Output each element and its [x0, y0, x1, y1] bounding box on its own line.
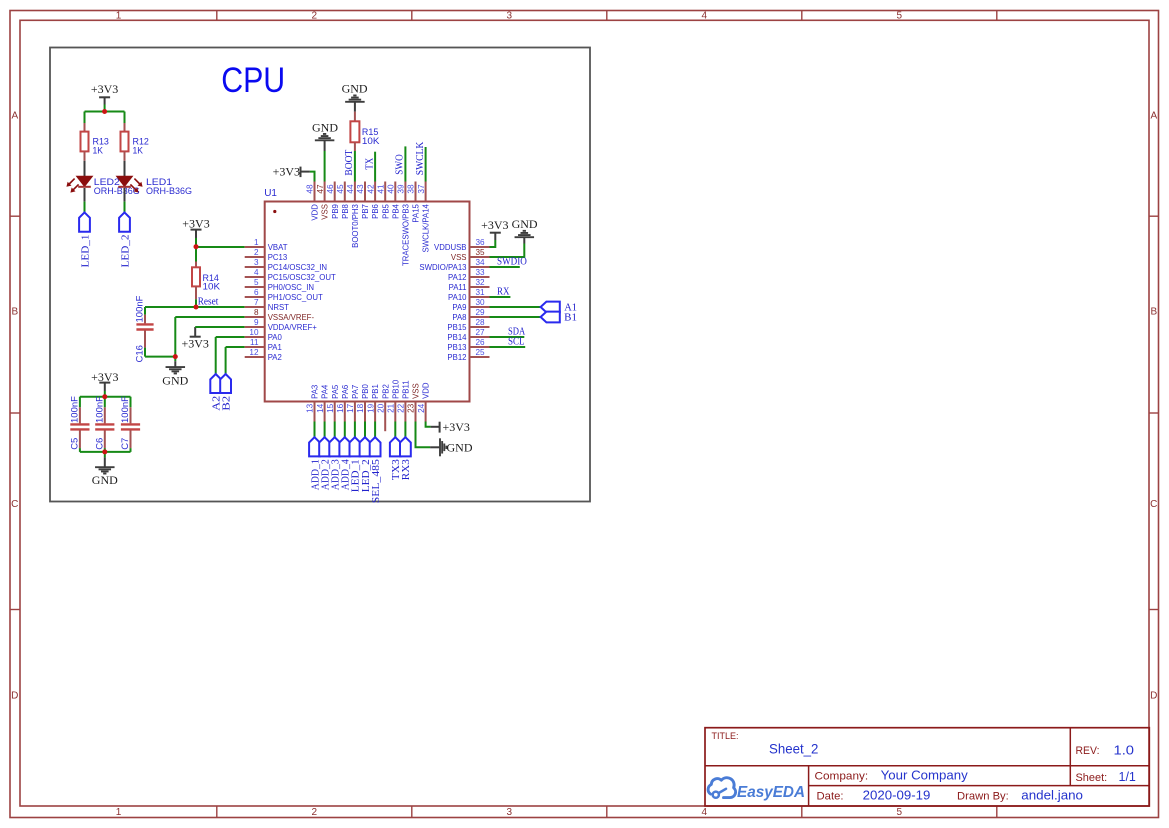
svg-text:46: 46 [326, 184, 335, 194]
svg-text:PB8: PB8 [341, 204, 350, 219]
wire pin 24 VDD to +3V3 [426, 422, 431, 427]
pin 16 PA6 [336, 385, 350, 422]
wire +3V3 to cap rail [104, 391, 106, 397]
capacitor C5 [70, 397, 89, 452]
wire +3V3 to pin 36 [490, 240, 496, 247]
svg-text:PA12: PA12 [448, 273, 467, 282]
label C7 value 100nF [120, 396, 131, 450]
wire net TX pin 42 [374, 152, 376, 182]
pin 14 PA4 [316, 384, 330, 421]
svg-text:17: 17 [346, 403, 355, 413]
label Drawn By [957, 788, 1083, 803]
wire R15 to pin 44 (BOOT) [354, 151, 356, 182]
pin 37 SWCLK/PA14 [417, 182, 431, 253]
svg-text:37: 37 [417, 184, 426, 194]
ground GND (VSS pin 47) [312, 121, 338, 151]
pin 22 PB11 [397, 380, 411, 421]
svg-text:PB9: PB9 [331, 204, 340, 219]
pin 45 PB8 [336, 182, 350, 219]
svg-text:PB1: PB1 [371, 384, 380, 399]
wire R12 to LED1 [124, 161, 126, 177]
ground GND (cap bank) [92, 452, 118, 487]
wire +3V3 to pin 9 VDDA [195, 326, 245, 328]
wire node to pin 1 VBAT [196, 246, 245, 248]
label Company [815, 768, 969, 783]
svg-text:C6: C6 [94, 438, 105, 450]
svg-text:Date:: Date: [817, 791, 844, 803]
svg-text:C: C [1150, 499, 1157, 510]
net flag ADD_4 [339, 437, 350, 456]
pin 8 VSSA/VREF- [245, 308, 315, 322]
svg-text:VDD: VDD [311, 204, 320, 221]
svg-text:Sheet_2: Sheet_2 [769, 741, 819, 757]
svg-text:PA5: PA5 [331, 384, 340, 399]
pin 9 VDDA/VREF+ [245, 318, 318, 332]
pin 21 PB10 [387, 379, 401, 421]
svg-text:B2: B2 [221, 396, 232, 411]
pin 27 PB14 [447, 328, 489, 342]
svg-text:VDD: VDD [422, 382, 431, 399]
junction cap rail bottom [102, 449, 107, 454]
title block [705, 728, 1149, 806]
net flag A2 [210, 374, 221, 393]
svg-text:RX: RX [497, 286, 510, 297]
svg-text:PB6: PB6 [371, 204, 380, 219]
svg-text:44: 44 [346, 184, 355, 194]
capacitor C16 [136, 307, 153, 357]
wire pin to flag ADD_3 [334, 422, 336, 438]
svg-text:41: 41 [376, 184, 385, 194]
pin 34 SWDIO/PA13 [419, 258, 489, 272]
svg-text:20: 20 [376, 403, 385, 413]
net flag LED_2 [360, 437, 371, 456]
ground GND (pin 23) [430, 438, 473, 456]
wire GND to pin 35 [490, 244, 525, 258]
svg-text:16: 16 [336, 403, 345, 413]
svg-text:SEL_485: SEL_485 [371, 459, 382, 503]
svg-text:3: 3 [254, 258, 259, 267]
logo EasyEDA [708, 778, 805, 801]
svg-text:PC13: PC13 [268, 253, 288, 262]
LED LED2 [67, 177, 92, 192]
pin 46 PB9 [326, 182, 340, 219]
svg-text:PA0: PA0 [268, 333, 283, 342]
svg-text:EasyEDA: EasyEDA [737, 784, 805, 801]
svg-text:34: 34 [476, 258, 486, 267]
svg-text:23: 23 [407, 403, 416, 413]
svg-text:VDDUSB: VDDUSB [434, 243, 467, 252]
net flag TX3 [390, 437, 401, 456]
wire pin to flag ADD_1 [314, 422, 316, 438]
svg-text:+3V3: +3V3 [273, 165, 300, 179]
pin 23 VSS [407, 383, 421, 421]
svg-text:+3V3: +3V3 [443, 420, 470, 434]
svg-text:+3V3: +3V3 [91, 82, 118, 96]
resistor R13 [81, 123, 89, 161]
svg-text:4: 4 [702, 807, 708, 818]
wire rail to R12 [124, 112, 126, 124]
resistor R15 [350, 112, 359, 151]
junction LED rail [102, 109, 107, 114]
svg-text:29: 29 [476, 308, 486, 317]
svg-text:26: 26 [476, 338, 486, 347]
net flag SEL_485 [370, 437, 381, 456]
label REV [1076, 743, 1135, 758]
pin 7 NRST [245, 298, 289, 312]
svg-text:VSSA/VREF-: VSSA/VREF- [268, 313, 315, 322]
svg-text:PA1: PA1 [268, 343, 282, 352]
svg-text:CPU: CPU [221, 61, 285, 100]
wire net RX pin 31 [490, 296, 511, 298]
svg-text:10K: 10K [203, 282, 221, 293]
pin 2 PC13 [245, 248, 288, 262]
power +3V3 (VDDUSB pin 36) [481, 218, 508, 240]
svg-text:D: D [11, 691, 18, 702]
svg-text:13: 13 [306, 403, 315, 413]
svg-text:GND: GND [312, 121, 338, 135]
pin 5 PH0/OSC_IN [245, 278, 314, 292]
svg-text:Sheet:: Sheet: [1076, 772, 1108, 784]
wire cap rail top [80, 396, 131, 398]
svg-text:22: 22 [397, 403, 406, 413]
svg-text:PC14/OSC32_IN: PC14/OSC32_IN [268, 263, 327, 272]
svg-text:TITLE:: TITLE: [712, 731, 739, 742]
pin 15 PA5 [326, 384, 340, 421]
svg-text:10: 10 [249, 328, 259, 337]
wire pin 11 PA1 to flag B2 [226, 347, 245, 374]
label Date [817, 788, 931, 803]
wire net SWCLK pin 37 [425, 147, 427, 182]
svg-text:35: 35 [476, 248, 486, 257]
pin 39 TRACESWO/PB3 [397, 182, 411, 267]
power +3V3 (pin 24) [431, 420, 470, 434]
svg-text:1.0: 1.0 [1114, 743, 1135, 758]
pin 18 PB0 [356, 383, 370, 421]
wire LED rail [85, 111, 125, 113]
svg-text:GND: GND [92, 473, 118, 487]
pin 40 PB4 [387, 182, 401, 219]
pin 20 PB2 [376, 384, 390, 431]
svg-text:PB12: PB12 [447, 353, 466, 362]
pin 36 VDDUSB [434, 238, 490, 252]
svg-text:1: 1 [254, 238, 259, 247]
pin 48 VDD [306, 182, 320, 221]
pin 35 VSS [451, 248, 490, 262]
svg-text:39: 39 [397, 184, 406, 194]
svg-text:15: 15 [326, 403, 335, 413]
svg-text:40: 40 [387, 184, 396, 194]
svg-text:19: 19 [366, 403, 375, 413]
junction VBAT node [194, 244, 199, 249]
pin 47 VSS [316, 182, 330, 220]
svg-text:PA2: PA2 [268, 353, 282, 362]
resistor R12 [121, 123, 129, 161]
svg-text:2020-09-19: 2020-09-19 [863, 788, 931, 803]
svg-text:43: 43 [356, 184, 365, 194]
svg-text:C7: C7 [120, 438, 131, 450]
svg-text:42: 42 [366, 184, 375, 194]
net flag LED_1 [350, 437, 361, 456]
ground GND (C16) [162, 357, 188, 388]
resistor R14 [192, 262, 200, 300]
wire pin 30 to flag A1 [490, 306, 541, 308]
svg-text:C5: C5 [70, 438, 81, 450]
junction ground node (C16) [173, 354, 178, 359]
wire pin 29 to flag B1 [490, 316, 541, 318]
wire C16 to ground node [145, 356, 175, 358]
svg-text:PB2: PB2 [381, 384, 390, 399]
power +3V3 (cap bank) [91, 370, 118, 391]
net flag LED_1 [79, 212, 90, 231]
svg-text:TX: TX [364, 157, 375, 169]
wire pin to flag LED_2 [364, 422, 366, 438]
pin 11 PA1 [245, 338, 282, 352]
power +3V3 (VDDA) [181, 327, 208, 351]
wire cap rail bottom [80, 451, 131, 453]
svg-text:GND: GND [447, 440, 473, 454]
svg-text:+3V3: +3V3 [481, 218, 508, 232]
wire pin 8 VSSA to ground node [175, 317, 244, 357]
svg-text:BOOT0/PH3: BOOT0/PH3 [351, 204, 360, 248]
svg-text:2: 2 [312, 11, 318, 22]
svg-text:Reset: Reset [198, 296, 219, 307]
svg-text:Drawn By:: Drawn By: [957, 791, 1009, 803]
pin 33 PA12 [448, 268, 490, 282]
svg-text:30: 30 [476, 298, 486, 307]
svg-text:VSS: VSS [321, 204, 330, 220]
wire +3V3 to VBAT node [195, 238, 197, 247]
svg-text:SCL: SCL [508, 336, 525, 347]
svg-text:+3V3: +3V3 [182, 216, 209, 230]
svg-text:PA10: PA10 [448, 293, 467, 302]
capacitor C7 [121, 397, 140, 452]
wire +3V3 stem to LED rail [104, 105, 106, 112]
wire R13 to LED2 [84, 161, 86, 177]
svg-text:PB4: PB4 [391, 203, 400, 218]
power +3V3 (VDD pin 48) [273, 165, 310, 179]
svg-text:36: 36 [476, 238, 486, 247]
svg-text:27: 27 [476, 328, 486, 337]
svg-text:14: 14 [316, 403, 325, 413]
wire pin 23 VSS to GND [416, 422, 431, 448]
pin 3 PC14/OSC32_IN [245, 258, 327, 272]
wire pin to flag RX3 [404, 422, 406, 438]
pin 28 PB15 [447, 318, 489, 332]
label R12 value [133, 137, 149, 157]
svg-text:PB15: PB15 [447, 323, 467, 332]
svg-text:SWO: SWO [395, 154, 406, 175]
power +3V3 (VBAT) [182, 216, 209, 238]
svg-text:U1: U1 [264, 188, 277, 199]
net flag ADD_1 [309, 437, 320, 456]
svg-text:SWCLK/PA14: SWCLK/PA14 [422, 203, 431, 252]
svg-text:5: 5 [254, 278, 259, 287]
svg-text:PA9: PA9 [452, 303, 466, 312]
svg-text:7: 7 [254, 298, 259, 307]
label C6 value 100nF [94, 396, 105, 450]
wire pin to flag LED_1 [354, 422, 356, 438]
svg-text:PB10: PB10 [391, 379, 400, 399]
svg-text:2: 2 [254, 248, 259, 257]
svg-text:NRST: NRST [268, 303, 289, 312]
wire +3V3 to pin 48 [310, 172, 315, 182]
svg-text:24: 24 [417, 403, 426, 413]
svg-text:+3V3: +3V3 [181, 337, 208, 351]
svg-text:PA7: PA7 [351, 385, 360, 399]
pin 12 PA2 [245, 348, 282, 362]
svg-text:B1: B1 [564, 313, 577, 324]
svg-text:3: 3 [507, 11, 513, 22]
svg-text:PC15/OSC32_OUT: PC15/OSC32_OUT [268, 273, 336, 282]
pin 26 PB13 [447, 338, 489, 352]
pin 1 VBAT [245, 238, 288, 252]
svg-text:3: 3 [507, 807, 513, 818]
svg-text:6: 6 [254, 288, 259, 297]
net flag B2 [220, 374, 231, 393]
svg-text:PB13: PB13 [447, 343, 466, 352]
net flag B1 [541, 312, 560, 323]
svg-text:PA4: PA4 [321, 384, 330, 399]
wire pin to flag SEL_485 [374, 422, 376, 438]
svg-text:VSS: VSS [412, 383, 421, 399]
capacitor C6 [95, 397, 114, 452]
pin 31 PA10 [448, 288, 490, 302]
svg-text:8: 8 [254, 308, 259, 317]
label R14 value [203, 273, 221, 293]
svg-text:GND: GND [162, 373, 188, 387]
wire pin to flag ADD_4 [344, 422, 346, 438]
pin 42 PB6 [366, 182, 380, 219]
svg-text:B: B [11, 307, 18, 318]
svg-text:PB7: PB7 [361, 204, 370, 219]
wire node to R14 [195, 247, 197, 262]
svg-text:PH1/OSC_OUT: PH1/OSC_OUT [268, 293, 323, 302]
label R15 value [362, 127, 380, 147]
svg-text:33: 33 [476, 268, 486, 277]
svg-text:C: C [11, 499, 18, 510]
svg-text:A: A [1150, 111, 1157, 122]
wire R14 to Reset node [195, 299, 197, 307]
svg-text:9: 9 [254, 318, 259, 327]
svg-text:2: 2 [312, 807, 318, 818]
LED LED1 [117, 177, 142, 192]
svg-text:SWDIO: SWDIO [497, 256, 527, 267]
svg-text:SWDIO/PA13: SWDIO/PA13 [419, 263, 466, 272]
wire net SWO pin 39 [404, 146, 406, 181]
svg-text:SWCLK: SWCLK [415, 141, 426, 175]
wire pin 10 PA0 to flag A2 [216, 337, 245, 374]
svg-text:11: 11 [250, 338, 259, 347]
svg-text:38: 38 [407, 184, 416, 194]
svg-text:VBAT: VBAT [268, 243, 288, 252]
svg-text:100nF: 100nF [135, 295, 146, 322]
svg-text:18: 18 [356, 403, 365, 413]
svg-text:PB0: PB0 [361, 383, 370, 398]
pin 29 PA8 [452, 308, 489, 322]
svg-text:C16: C16 [135, 345, 146, 362]
svg-text:TRACESWO/PB3: TRACESWO/PB3 [402, 204, 411, 266]
svg-text:28: 28 [476, 318, 486, 327]
pin 19 PB1 [366, 384, 380, 421]
net flag RX3 [400, 437, 411, 456]
svg-text:4: 4 [254, 268, 259, 277]
svg-text:PA15: PA15 [412, 203, 421, 222]
svg-text:GND: GND [342, 81, 368, 95]
junction cap rail top [102, 394, 107, 399]
svg-text:A: A [11, 111, 18, 122]
pin 30 PA9 [452, 298, 489, 312]
power +3V3 (LED rail) [91, 82, 118, 104]
svg-text:Company:: Company: [815, 771, 869, 783]
svg-text:100nF: 100nF [120, 396, 131, 423]
junction Reset node [194, 305, 199, 310]
svg-text:VDDA/VREF+: VDDA/VREF+ [268, 323, 318, 332]
net flag LED_2 [119, 212, 130, 231]
pin 32 PA11 [449, 278, 490, 292]
label LED2 ORH-B36G [94, 177, 140, 197]
pin 25 PB12 [447, 348, 489, 362]
pin 4 PC15/OSC32_OUT [245, 268, 336, 282]
svg-text:100nF: 100nF [70, 396, 81, 423]
pin 13 PA3 [306, 385, 320, 422]
svg-text:10K: 10K [362, 136, 380, 147]
pin 24 VDD [417, 382, 431, 421]
svg-text:andel.jano: andel.jano [1021, 788, 1083, 803]
svg-text:12: 12 [249, 348, 259, 357]
svg-text:45: 45 [336, 184, 345, 194]
wire net SDA pin 27 [490, 336, 525, 338]
svg-text:1: 1 [116, 807, 122, 818]
net flag ADD_3 [329, 437, 340, 456]
label C16 value 100nF [135, 295, 146, 362]
label R13 value [93, 137, 109, 157]
pin 38 PA15 [407, 182, 421, 223]
pin 10 PA0 [245, 328, 283, 342]
svg-text:LED_1: LED_1 [80, 235, 91, 268]
svg-text:PB11: PB11 [402, 380, 411, 399]
pin 17 PA7 [346, 385, 360, 422]
svg-text:21: 21 [387, 403, 396, 413]
svg-text:PA3: PA3 [311, 385, 320, 399]
svg-text:ORH-B36G: ORH-B36G [146, 186, 192, 197]
svg-text:5: 5 [897, 11, 903, 22]
pin 41 PB5 [376, 182, 390, 219]
svg-text:4: 4 [702, 11, 708, 22]
wire GND to pin 47 [324, 151, 326, 182]
svg-text:REV:: REV: [1076, 745, 1100, 757]
ground GND (R15) [342, 81, 368, 111]
svg-text:1K: 1K [133, 146, 144, 157]
wire pin to flag TX3 [394, 422, 396, 438]
svg-text:Your Company: Your Company [881, 768, 969, 783]
svg-text:1/1: 1/1 [1119, 769, 1136, 784]
svg-text:5: 5 [897, 807, 903, 818]
svg-text:GND: GND [512, 217, 538, 231]
wire LED2 to flag LED_1 [84, 188, 86, 212]
svg-text:D: D [1150, 691, 1157, 702]
pin 44 BOOT0/PH3 [346, 182, 360, 248]
label C5 value 100nF [70, 396, 81, 450]
wire pin to flag ADD_2 [324, 422, 326, 438]
IC U1 body [265, 202, 470, 402]
svg-text:1: 1 [116, 11, 122, 22]
svg-text:31: 31 [476, 288, 486, 297]
pin 43 PB7 [356, 182, 370, 219]
svg-text:32: 32 [476, 278, 486, 287]
wire net SWDIO pin 34 [490, 266, 520, 268]
svg-text:PA11: PA11 [449, 283, 467, 292]
svg-text:PB5: PB5 [381, 203, 390, 218]
